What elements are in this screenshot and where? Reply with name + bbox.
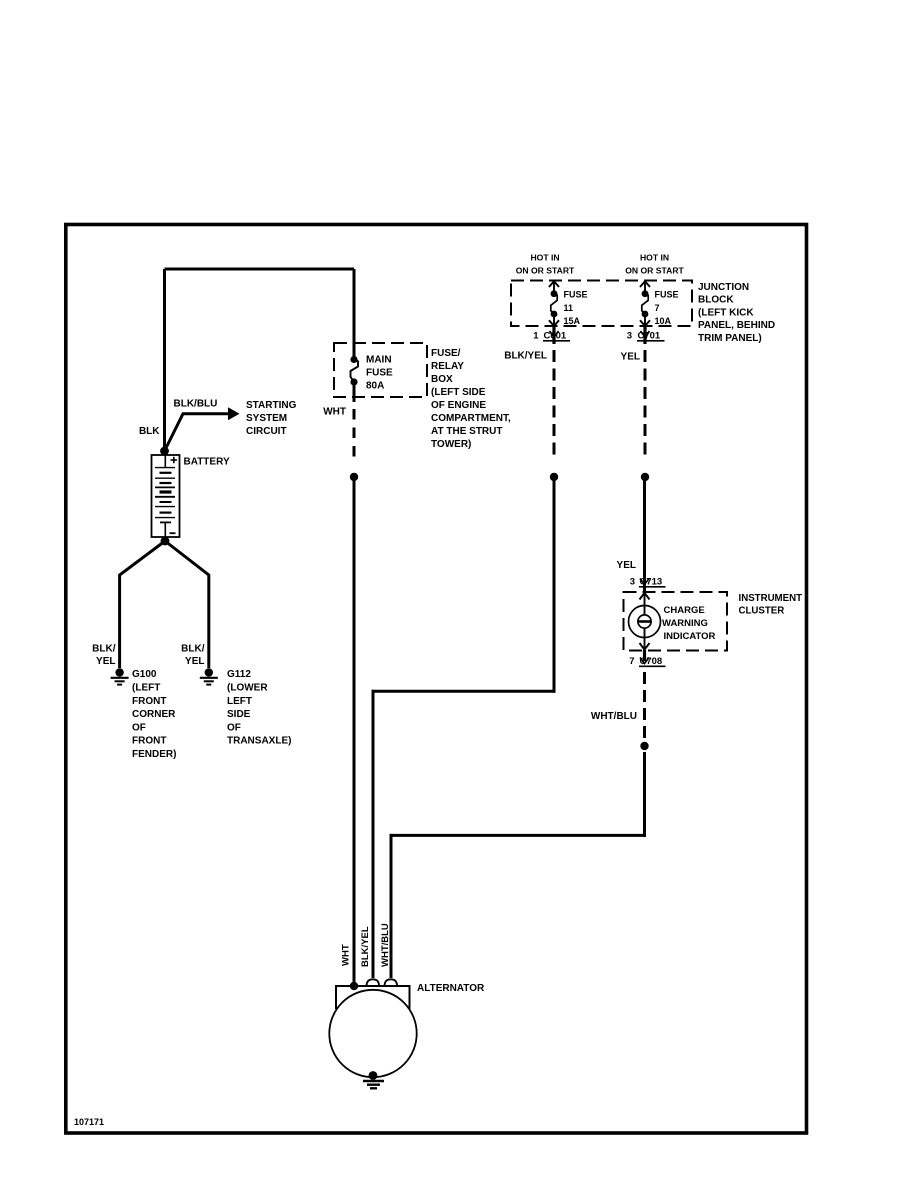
svg-text:WHT: WHT bbox=[323, 407, 346, 418]
svg-text:RELAY: RELAY bbox=[431, 361, 464, 372]
wire YEL solid to cluster bbox=[643, 477, 646, 592]
wire battery negative to G100 bbox=[120, 541, 165, 668]
node WHT/BLU splice bbox=[640, 742, 648, 750]
connector 3 C713 bbox=[630, 577, 666, 588]
node WHT at alternator bbox=[350, 982, 358, 990]
svg-text:TOWER): TOWER) bbox=[431, 439, 471, 450]
svg-text:HOT IN: HOT IN bbox=[640, 253, 669, 263]
battery minus sign bbox=[170, 532, 176, 534]
battery bottom terminal stub bbox=[164, 522, 166, 537]
wire WHT dashed section bbox=[353, 409, 356, 461]
terminal hook BLK/YEL bbox=[367, 979, 380, 986]
battery plus sign bbox=[171, 457, 178, 463]
svg-text:107171: 107171 bbox=[74, 1117, 104, 1127]
fuse 7 10A bbox=[640, 281, 650, 326]
svg-text:FUSE: FUSE bbox=[564, 290, 588, 300]
wire battery top vertical bbox=[163, 269, 166, 451]
svg-text:INSTRUMENT: INSTRUMENT bbox=[739, 593, 803, 604]
svg-text:G112: G112 bbox=[227, 669, 251, 680]
svg-text:(LOWER: (LOWER bbox=[227, 683, 268, 694]
border frame bbox=[66, 225, 807, 1134]
svg-text:HOT IN: HOT IN bbox=[530, 253, 559, 263]
svg-text:CIRCUIT: CIRCUIT bbox=[246, 426, 287, 437]
battery top terminal stub bbox=[164, 455, 166, 468]
svg-text:BLK/: BLK/ bbox=[92, 643, 116, 654]
battery B1 box bbox=[152, 455, 180, 537]
svg-text:G100: G100 bbox=[132, 669, 157, 680]
ground G112 bbox=[200, 668, 218, 684]
svg-text:7: 7 bbox=[655, 303, 660, 313]
wire WHT/BLU dashed section bbox=[643, 672, 646, 739]
alternator body circle bbox=[329, 990, 416, 1077]
label G112 (LOWER LEFT SIDE OF TRANSAXLE) bbox=[227, 669, 291, 747]
svg-text:JUNCTION: JUNCTION bbox=[698, 282, 749, 293]
battery plates bbox=[155, 468, 175, 523]
ground G100 bbox=[111, 668, 129, 684]
svg-text:BLK/YEL: BLK/YEL bbox=[504, 351, 547, 362]
wire YEL dashed section bbox=[644, 350, 647, 456]
svg-text:CHARGE: CHARGE bbox=[664, 605, 705, 616]
arrowhead starting system circuit bbox=[228, 407, 240, 420]
svg-text:LEFT: LEFT bbox=[227, 696, 252, 707]
charge warning indicator bulb bbox=[629, 593, 661, 650]
svg-text:TRANSAXLE): TRANSAXLE) bbox=[227, 736, 291, 747]
wire battery negative to G112 bbox=[165, 541, 209, 668]
label FUSE/RELAY BOX (LEFT SIDE OF ENGINE COMPARTMENT, AT THE STRUT TOWER) bbox=[431, 348, 511, 450]
fuse/relay box dashed outline bbox=[334, 343, 427, 397]
terminal hook WHT/BLU bbox=[385, 979, 398, 986]
instrument cluster dashed outline bbox=[624, 592, 728, 651]
wire WHT to alternator bbox=[353, 477, 356, 986]
svg-text:7: 7 bbox=[629, 656, 634, 667]
node battery positive junction bbox=[160, 447, 169, 456]
svg-text:YEL: YEL bbox=[621, 352, 640, 363]
svg-text:AT THE STRUT: AT THE STRUT bbox=[431, 426, 502, 437]
svg-text:PANEL, BEHIND: PANEL, BEHIND bbox=[698, 320, 775, 331]
svg-text:BOX: BOX bbox=[431, 374, 453, 385]
svg-text:BLK/: BLK/ bbox=[181, 643, 205, 654]
svg-text:OF ENGINE: OF ENGINE bbox=[431, 400, 486, 411]
svg-text:FUSE/: FUSE/ bbox=[431, 348, 461, 359]
svg-text:(LEFT SIDE: (LEFT SIDE bbox=[431, 387, 486, 398]
svg-text:TRIM PANEL): TRIM PANEL) bbox=[698, 333, 762, 344]
node BLK/YEL splice bbox=[550, 473, 558, 481]
svg-text:BLK/YEL: BLK/YEL bbox=[360, 926, 371, 967]
svg-text:YEL: YEL bbox=[96, 656, 115, 667]
wire BLK/YEL dashed section bbox=[553, 350, 556, 456]
wire BLK/YEL down to alternator bbox=[372, 690, 375, 978]
svg-text:CLUSTER: CLUSTER bbox=[739, 606, 785, 617]
svg-text:BLOCK: BLOCK bbox=[698, 295, 734, 306]
wire BLK/YEL solid down bbox=[553, 477, 556, 693]
svg-text:FENDER): FENDER) bbox=[132, 749, 176, 760]
svg-text:INDICATOR: INDICATOR bbox=[664, 631, 716, 642]
svg-text:3: 3 bbox=[627, 331, 632, 342]
connector 7 C708 bbox=[629, 650, 665, 667]
svg-text:COMPARTMENT,: COMPARTMENT, bbox=[431, 413, 511, 424]
svg-text:WARNING: WARNING bbox=[662, 618, 708, 629]
svg-text:FUSE: FUSE bbox=[655, 290, 679, 300]
svg-text:10A: 10A bbox=[655, 316, 672, 326]
wire BLK/YEL horizontal bbox=[372, 690, 556, 693]
alternator terminal box bbox=[336, 986, 410, 1009]
wire into main fuse bbox=[353, 269, 356, 360]
svg-text:15A: 15A bbox=[564, 316, 581, 326]
wire WHT/BLU down to alternator bbox=[390, 834, 393, 978]
junction block dashed outline bbox=[511, 281, 692, 327]
wire WHT/BLU horizontal bbox=[390, 834, 647, 837]
svg-text:(LEFT: (LEFT bbox=[132, 683, 160, 694]
svg-text:STARTING: STARTING bbox=[246, 400, 297, 411]
label G100 (LEFT FRONT CORNER OF FRONT FENDER) bbox=[132, 669, 176, 760]
connector 1 C601 bbox=[533, 326, 570, 344]
wire below main fuse solid bbox=[353, 382, 356, 402]
svg-text:YEL: YEL bbox=[185, 656, 204, 667]
svg-text:1: 1 bbox=[533, 331, 539, 342]
node YEL splice bbox=[641, 473, 649, 481]
svg-text:FRONT: FRONT bbox=[132, 696, 166, 707]
node battery negative junction bbox=[161, 537, 170, 546]
connector 3 C701 bbox=[627, 326, 665, 344]
wire to starting system circuit bbox=[165, 414, 230, 451]
svg-text:BATTERY: BATTERY bbox=[184, 457, 230, 468]
main fuse 80A bbox=[350, 356, 358, 386]
svg-text:FUSE: FUSE bbox=[366, 368, 393, 379]
svg-text:ALTERNATOR: ALTERNATOR bbox=[417, 983, 485, 994]
svg-text:MAIN: MAIN bbox=[366, 355, 392, 366]
svg-text:3: 3 bbox=[630, 577, 635, 588]
svg-text:SYSTEM: SYSTEM bbox=[246, 413, 287, 424]
svg-text:80A: 80A bbox=[366, 381, 384, 392]
svg-text:WHT/BLU: WHT/BLU bbox=[380, 923, 391, 967]
svg-text:OF: OF bbox=[227, 722, 241, 733]
node WHT splice bbox=[350, 473, 358, 481]
svg-text:CORNER: CORNER bbox=[132, 709, 176, 720]
svg-text:(LEFT KICK: (LEFT KICK bbox=[698, 307, 754, 318]
wire top horizontal WHT feed bbox=[165, 268, 355, 271]
svg-text:BLK: BLK bbox=[139, 426, 160, 437]
svg-text:BLK/BLU: BLK/BLU bbox=[174, 399, 218, 410]
label JUNCTION BLOCK (LEFT KICK PANEL, BEHIND TRIM PANEL) bbox=[698, 282, 775, 344]
svg-text:WHT: WHT bbox=[341, 944, 352, 966]
svg-text:WHT/BLU: WHT/BLU bbox=[591, 711, 637, 722]
ground alternator bbox=[363, 1071, 384, 1088]
fuse 11 15A bbox=[549, 281, 559, 326]
svg-text:ON OR START: ON OR START bbox=[625, 266, 684, 276]
wire WHT/BLU solid down bbox=[643, 752, 646, 837]
svg-text:OF: OF bbox=[132, 722, 146, 733]
svg-text:ON OR START: ON OR START bbox=[516, 266, 575, 276]
svg-text:YEL: YEL bbox=[617, 560, 636, 571]
svg-text:11: 11 bbox=[564, 303, 574, 313]
svg-text:SIDE: SIDE bbox=[227, 709, 251, 720]
svg-text:FRONT: FRONT bbox=[132, 736, 166, 747]
